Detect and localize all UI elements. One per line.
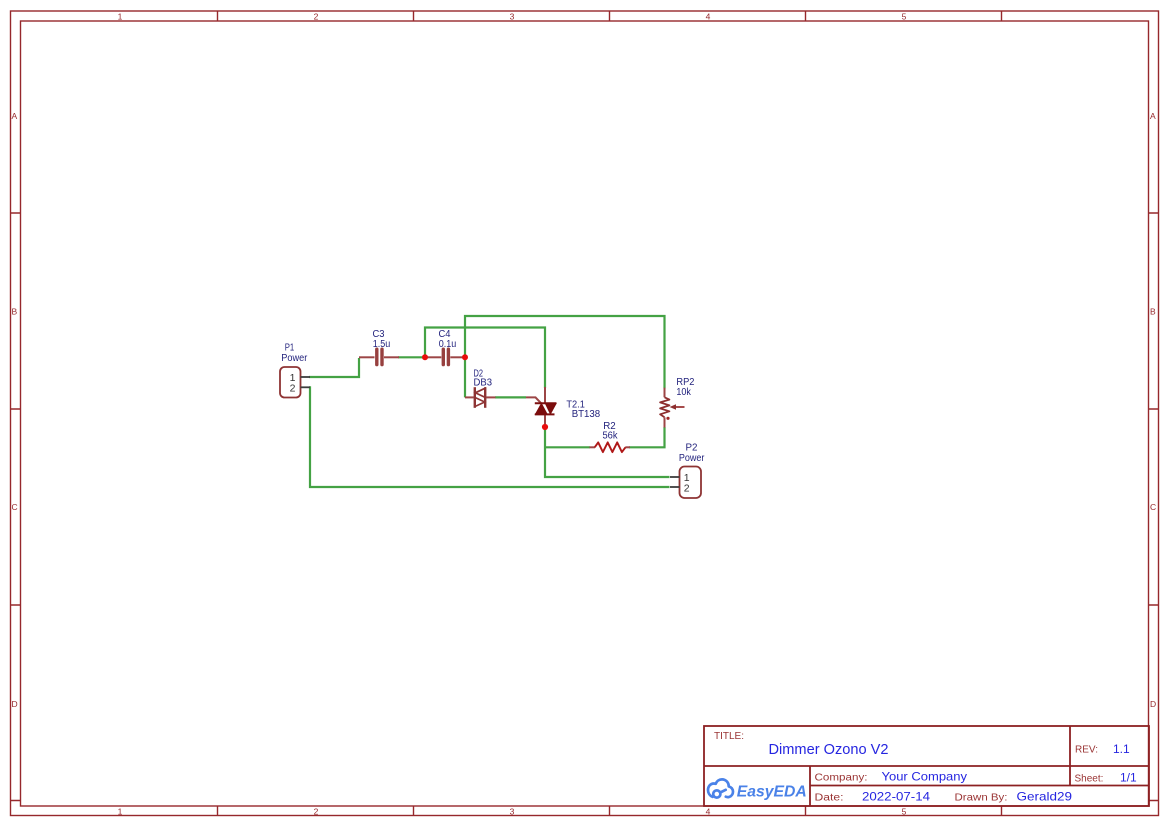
svg-text:D: D	[12, 699, 18, 709]
title block logo cell divider	[809, 766, 811, 806]
svg-text:D: D	[1150, 699, 1156, 709]
capacitor C3	[359, 349, 399, 364]
svg-text:1: 1	[118, 12, 123, 22]
svg-text:Dimmer Ozono V2: Dimmer Ozono V2	[769, 741, 889, 758]
ruler ticks left	[11, 213, 21, 801]
ruler ticks top	[218, 11, 1002, 21]
node N2 junction dot	[462, 354, 468, 360]
svg-text:2: 2	[684, 482, 690, 494]
svg-text:B: B	[1150, 307, 1156, 317]
svg-text:REV:: REV:	[1075, 745, 1098, 756]
node MT1 junction dot	[542, 424, 548, 430]
svg-text:0.1u: 0.1u	[439, 339, 457, 350]
svg-text:B: B	[12, 307, 18, 317]
resistor R2	[590, 442, 631, 452]
svg-text:Power: Power	[281, 353, 308, 364]
wire P1 pin2 to P2 pin2	[309, 387, 670, 487]
ruler ticks right	[1149, 213, 1159, 801]
svg-text:P1: P1	[285, 342, 295, 353]
svg-text:BT138: BT138	[572, 409, 601, 420]
svg-text:1.5u: 1.5u	[373, 339, 391, 350]
svg-text:Date:: Date:	[815, 793, 844, 804]
svg-text:2: 2	[314, 807, 319, 817]
svg-text:1/1: 1/1	[1120, 771, 1137, 785]
svg-text:5: 5	[902, 12, 907, 22]
svg-text:4: 4	[706, 807, 711, 817]
svg-text:Sheet:: Sheet:	[1075, 773, 1104, 784]
svg-text:3: 3	[510, 807, 515, 817]
svg-text:10k: 10k	[676, 387, 691, 398]
title block outline	[704, 726, 1149, 806]
wire node N2 up and across to RP2 top	[465, 316, 665, 389]
title block row divider 1	[704, 765, 1149, 767]
svg-text:Company:: Company:	[815, 772, 868, 783]
ruler ticks bottom	[218, 806, 1002, 816]
svg-text:A: A	[1150, 111, 1156, 121]
svg-text:TITLE:: TITLE:	[714, 731, 744, 742]
ruler numbers top	[118, 12, 907, 22]
svg-text:1: 1	[118, 807, 123, 817]
potentiometer RP2	[660, 388, 684, 428]
ruler numbers bottom	[118, 807, 907, 817]
capacitor C4	[426, 349, 464, 364]
wire P1 pin1 to C3	[309, 358, 359, 377]
svg-text:3: 3	[510, 12, 515, 22]
svg-text:Your Company: Your Company	[882, 770, 968, 784]
svg-text:EasyEDA: EasyEDA	[737, 784, 807, 801]
svg-text:2: 2	[290, 382, 296, 394]
wire R2 right to RP2 bottom	[629, 427, 665, 447]
svg-text:2: 2	[314, 12, 319, 22]
diac D2	[465, 387, 496, 408]
wire diac D2 to triac gate	[495, 396, 526, 398]
svg-text:Drawn By:: Drawn By:	[955, 793, 1008, 804]
svg-text:Power: Power	[679, 453, 705, 464]
svg-text:Gerald29: Gerald29	[1017, 790, 1073, 804]
svg-text:56k: 56k	[603, 431, 619, 442]
svg-text:4: 4	[706, 12, 711, 22]
EasyEDA logo cloud	[708, 779, 733, 797]
triac T2.1	[526, 387, 556, 424]
svg-text:1.1: 1.1	[1113, 742, 1130, 756]
ruler letters left	[12, 111, 18, 709]
svg-text:C: C	[12, 502, 18, 512]
title block rev column divider	[1069, 726, 1071, 786]
svg-text:2022-07-14: 2022-07-14	[862, 790, 930, 804]
title block row divider 2	[810, 785, 1149, 787]
connector P2	[670, 467, 701, 499]
svg-text:DB3: DB3	[474, 377, 493, 388]
node N1 junction dot	[422, 354, 428, 360]
ruler letters right	[1150, 111, 1156, 709]
svg-text:P2: P2	[686, 442, 698, 453]
svg-text:C: C	[1150, 502, 1156, 512]
connector P1	[280, 367, 310, 398]
svg-text:A: A	[12, 111, 18, 121]
wire triac MT1 down to R2 junction	[545, 428, 670, 477]
wire R2 left to triac node	[545, 446, 590, 448]
svg-text:5: 5	[902, 807, 907, 817]
wire node N1 up and across to triac MT2	[425, 328, 545, 389]
wire node N2 down to diac D2	[464, 358, 466, 397]
wire C3 to node N1	[398, 356, 424, 358]
